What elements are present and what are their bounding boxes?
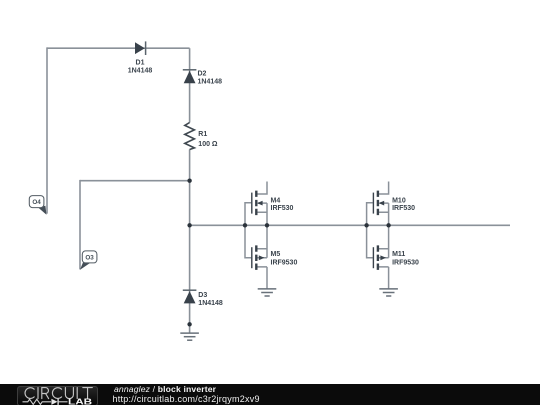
svg-text:1N4148: 1N4148	[128, 68, 153, 75]
node junction dot (M10/M11 output)	[386, 223, 390, 227]
wire main rail (gate/output bus)	[190, 224, 510, 226]
svg-text:M10: M10	[392, 197, 406, 204]
transistor M5 (IRF9530 PMOS)	[245, 225, 297, 289]
ground (below M5)	[258, 289, 277, 296]
diode D3	[183, 290, 223, 307]
wire right column between R1 and rail, down to D3 and ground	[189, 150, 191, 334]
CircuitLab logo badge	[17, 386, 98, 405]
resistor R1	[185, 123, 218, 150]
svg-text:M4: M4	[271, 197, 281, 204]
svg-text:M5: M5	[271, 251, 281, 258]
wire right column upper (through D2)	[189, 48, 191, 122]
svg-text:IRF9530: IRF9530	[392, 260, 419, 267]
svg-text:IRF530: IRF530	[392, 205, 415, 212]
node junction dot (M4/M5 gates)	[243, 223, 247, 227]
node junction dot (rail / column)	[187, 223, 191, 227]
transistor M11 (IRF9530 PMOS)	[367, 225, 419, 289]
node junction dot (O3 tap)	[187, 179, 191, 183]
ground (below M11)	[379, 289, 398, 296]
svg-text:O3: O3	[85, 254, 94, 261]
wire O3 branch vertical to flag O3	[79, 180, 81, 270]
footer bar	[0, 384, 540, 405]
flag O3	[80, 251, 97, 270]
svg-text:D3: D3	[198, 292, 207, 299]
flag O4	[29, 196, 46, 215]
node junction dot (D3 ground node)	[187, 322, 191, 326]
svg-text:100 Ω: 100 Ω	[198, 141, 218, 148]
ground (below D3)	[180, 333, 199, 340]
svg-text:D1: D1	[136, 60, 145, 67]
svg-text:M11: M11	[392, 251, 405, 258]
svg-text:D2: D2	[198, 71, 207, 78]
svg-text:O4: O4	[32, 199, 41, 206]
transistor M4 (IRF530 NMOS)	[245, 182, 294, 226]
transistor M10 (IRF530 NMOS)	[367, 182, 416, 226]
diode D1	[128, 41, 153, 74]
svg-text:IRF530: IRF530	[271, 205, 294, 212]
node junction dot (M4/M5 output)	[265, 223, 269, 227]
node junction dot (M10/M11 gates)	[364, 223, 368, 227]
wire left vertical to flag O4	[46, 47, 48, 213]
svg-text:R1: R1	[198, 131, 207, 138]
svg-text:LAB: LAB	[68, 396, 92, 405]
wire O3 branch horizontal	[80, 180, 190, 182]
diode D2	[183, 70, 222, 86]
svg-text:1N4148: 1N4148	[198, 79, 223, 86]
svg-text:1N4148: 1N4148	[198, 300, 223, 307]
svg-text:IRF9530: IRF9530	[271, 260, 298, 267]
wire top horizontal from node O4 branch to right column	[47, 47, 190, 49]
